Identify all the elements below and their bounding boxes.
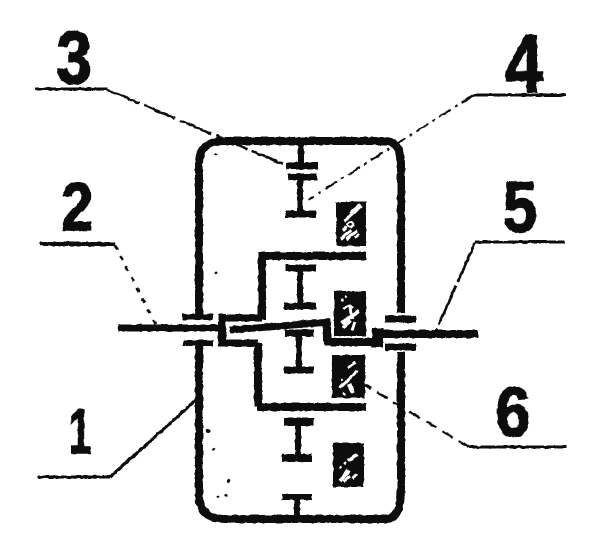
- leader line 2: [115, 245, 157, 327]
- coupling bracket vertical bar: [218, 314, 226, 346]
- label 5 underline: [475, 241, 565, 244]
- coupling bracket top line: [222, 315, 262, 322]
- upper rail: [258, 252, 366, 260]
- top gear bar 1: [286, 163, 318, 170]
- lower middle gear I stem: [296, 333, 302, 370]
- shaft step bar: [372, 328, 383, 347]
- svg-text:2: 2: [61, 169, 93, 245]
- middle gear I top bar: [285, 265, 316, 272]
- bottom gear I bottom bar: [282, 454, 312, 462]
- label 4 underline: [474, 94, 566, 97]
- label 2 underline: [40, 242, 115, 246]
- hatched gear block 3: [332, 355, 365, 398]
- speck: [215, 153, 218, 156]
- coupling bracket bottom line: [222, 340, 258, 347]
- middle gear I bottom bar: [284, 303, 316, 310]
- bottom gear I stem: [295, 422, 301, 458]
- lower rail: [257, 403, 366, 411]
- inner shaft lower line: [324, 338, 380, 346]
- speck: [213, 448, 216, 451]
- leader line 4: [308, 95, 474, 200]
- hatched gear block 1: [336, 202, 366, 246]
- label 6 underline: [469, 446, 567, 449]
- output shaft right: [374, 330, 478, 338]
- bearing cap left lower: [183, 340, 213, 346]
- leader line 3: [108, 90, 285, 165]
- bearing cap right lower: [385, 344, 416, 351]
- bearing cap right upper: [385, 316, 416, 323]
- bottom stub stem: [294, 497, 300, 519]
- speck: [224, 494, 227, 497]
- bottom gear I top bar: [284, 418, 314, 426]
- lower middle gear I bottom bar: [284, 367, 314, 374]
- leader line 1: [110, 400, 196, 477]
- top gear shaft stem lower: [297, 177, 303, 212]
- svg-text:3: 3: [56, 16, 92, 99]
- label 3 underline: [35, 88, 108, 91]
- inner shaft step connector: [323, 322, 331, 341]
- label 1 underline: [38, 476, 110, 479]
- hatched gear block 4: [333, 443, 364, 487]
- speck: [206, 429, 210, 433]
- housing lower outline: [199, 346, 401, 519]
- leader line 5: [436, 243, 475, 331]
- input shaft left: [118, 325, 224, 332]
- hatched gear block 2: [334, 291, 366, 336]
- speck: [215, 272, 218, 275]
- bearing cap left upper: [182, 314, 213, 320]
- top gear bar 3: [285, 211, 316, 218]
- top gear shaft stem upper: [298, 143, 304, 166]
- top gear bar 2: [288, 174, 317, 181]
- svg-text:5: 5: [503, 168, 537, 248]
- inner shaft: [230, 322, 330, 330]
- speck: [217, 496, 220, 499]
- leader line 6: [365, 385, 469, 447]
- svg-text:1: 1: [69, 397, 91, 467]
- bottom stub bar: [282, 494, 312, 500]
- lower middle gear I top bar: [285, 330, 314, 337]
- middle gear I stem: [297, 268, 303, 306]
- svg-text:4: 4: [505, 17, 543, 110]
- housing upper outline: [199, 141, 401, 314]
- svg-text:6: 6: [496, 373, 531, 451]
- speck: [226, 479, 230, 483]
- bracket drop to lower rail: [254, 343, 262, 407]
- rail drop vertical: [258, 256, 266, 320]
